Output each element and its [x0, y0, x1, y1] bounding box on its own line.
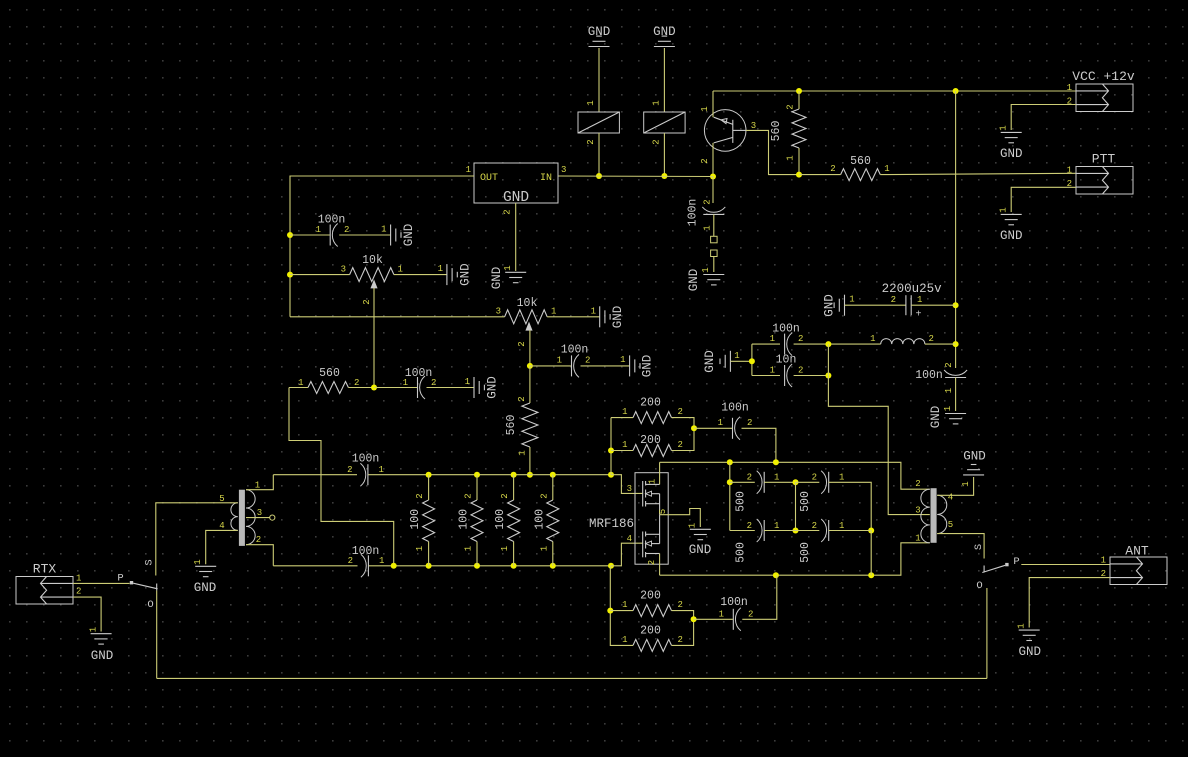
transformer T1 primary winding [231, 503, 238, 531]
pin 3 label T1 [257, 508, 262, 518]
svg-text:GND: GND [963, 450, 986, 464]
wire Q1 collector (pin 1) [712, 91, 714, 117]
svg-text:GND: GND [490, 267, 504, 290]
wire 200 top left tie [611, 417, 633, 419]
wire ground to 2200u [845, 304, 906, 306]
ground (pot2) [591, 306, 625, 329]
svg-text:200: 200 [640, 397, 661, 410]
junction 500 top-left [727, 479, 733, 485]
svg-text:1: 1 [651, 100, 661, 105]
wire 200 top left vertical [610, 418, 612, 475]
svg-text:1: 1 [500, 546, 510, 551]
svg-text:2: 2 [354, 378, 359, 388]
svg-text:560: 560 [319, 367, 340, 380]
junction 200 bottom right / 100n [691, 616, 697, 622]
wire T1 pin1 to gate3 bus [246, 475, 273, 490]
wire 560 top stub [798, 91, 800, 109]
svg-text:1: 1 [688, 523, 698, 528]
pin 1 label T1 [255, 481, 260, 491]
pin 4 label T2 [948, 493, 953, 503]
wire pot2 wiper down [529, 330, 531, 366]
wire bank 1 top stub [428, 475, 430, 500]
wire inductor to +12V [925, 343, 956, 345]
svg-text:2: 2 [678, 440, 683, 450]
svg-text:GND: GND [929, 406, 943, 429]
svg-text:2: 2 [362, 299, 372, 304]
wire 500 bottom row c [796, 530, 820, 532]
pin 1 label T2 [915, 534, 920, 544]
wire 500 bottom row b [764, 530, 795, 532]
svg-text:1: 1 [703, 225, 713, 230]
svg-text:+: + [915, 310, 921, 321]
svg-text:1: 1 [379, 556, 384, 566]
transformer T2 primary winding [921, 489, 930, 543]
svg-text:1: 1 [849, 295, 854, 305]
wire T2 pin5 to switch S [937, 534, 984, 559]
pin 5 label U1 [658, 509, 668, 514]
pin 3 label U2 [561, 165, 566, 175]
resistor 560 (bias horizontal) [298, 367, 359, 394]
pin 1 label U2 [466, 165, 471, 175]
svg-text:5: 5 [948, 520, 953, 530]
capacitor 500 (top right) [799, 471, 844, 512]
svg-text:1: 1 [700, 106, 710, 111]
svg-text:2: 2 [76, 587, 81, 597]
wire wiper junction down [529, 366, 531, 403]
svg-text:2: 2 [348, 556, 353, 566]
ground (pot2 wiper cap) [620, 355, 654, 378]
wire to 100n (filter) [752, 343, 780, 345]
svg-text:100: 100 [458, 509, 471, 530]
resistor 200 (bottom A) [622, 590, 683, 617]
transformer T1 secondary winding [246, 490, 255, 545]
pin 2 label RTX [76, 587, 81, 597]
capacitor 100n (row 387) [403, 367, 437, 399]
wire +12V top bus [713, 90, 1076, 92]
svg-text:1: 1 [551, 307, 556, 317]
svg-text:100n: 100n [352, 453, 380, 466]
wire ground to caps [730, 360, 752, 362]
wire ANT pin2 to ground [1029, 578, 1110, 628]
wire 2200u to +12V [911, 304, 955, 306]
junction 2200u [953, 302, 959, 308]
pin 4 label U1 [627, 534, 632, 544]
wire OUT net [290, 176, 474, 317]
svg-text:GND: GND [653, 25, 676, 39]
capacitor 100n (bottom coupling) [719, 596, 754, 631]
wire regulator IN bus [558, 175, 713, 178]
wire fuse F2 bottom [663, 133, 665, 176]
wire T2 pin4 to ground [937, 477, 973, 495]
svg-text:2: 2 [344, 225, 349, 235]
svg-text:100: 100 [533, 509, 546, 530]
potentiometer 10k (pot1) [341, 254, 403, 288]
svg-text:2: 2 [798, 334, 803, 344]
svg-text:3: 3 [341, 265, 346, 275]
svg-text:ANT: ANT [1125, 544, 1149, 559]
pin 2 label U2 [503, 209, 513, 214]
svg-text:2: 2 [747, 473, 752, 483]
wire bank 4 top stub [552, 475, 554, 500]
junction 560 bias / gate3 bus [527, 472, 533, 478]
wire caps mid vertical [827, 344, 829, 375]
svg-text:GND: GND [1000, 229, 1023, 243]
svg-text:1: 1 [1067, 166, 1072, 176]
svg-text:IN: IN [540, 173, 552, 184]
svg-text:1: 1 [193, 559, 203, 564]
wire caps left vertical [751, 344, 753, 375]
svg-text:1: 1 [774, 521, 779, 531]
junction OUT / 100n row [287, 232, 293, 238]
resistor 560 (bias vertical) [505, 396, 538, 455]
wire bottom bus [157, 677, 987, 679]
svg-text:3: 3 [627, 484, 632, 494]
wire gate4 bus left [273, 565, 357, 567]
switch SW1 (RTX side) [117, 559, 157, 611]
wire VCC pin2 to ground [1011, 105, 1076, 131]
svg-text:2: 2 [431, 378, 436, 388]
wire 560h to junction [348, 387, 374, 389]
svg-text:1: 1 [586, 100, 596, 105]
pin 2 label T1 [256, 535, 261, 545]
svg-text:2: 2 [415, 493, 425, 498]
wire regulator GND pin [515, 203, 517, 271]
svg-text:1: 1 [591, 307, 596, 317]
wire 100n to ground (row 387) [427, 387, 475, 389]
pin 1 label VCC [1067, 83, 1072, 93]
svg-text:2: 2 [347, 465, 352, 475]
resistor 200 (bottom B) [622, 625, 683, 652]
svg-text:3: 3 [257, 508, 262, 518]
pin 1 label RTX [76, 574, 81, 584]
svg-text:100n: 100n [772, 323, 800, 336]
svg-text:1: 1 [557, 356, 562, 366]
ground (100n/10n) [703, 350, 740, 373]
resistor 100 (bank 4) [533, 493, 559, 551]
wire 100n to ground (row1) [339, 234, 390, 236]
svg-text:1: 1 [622, 600, 627, 610]
ground (100n row1) [381, 224, 416, 247]
wire 560 bottom stub [798, 148, 800, 175]
svg-text:1: 1 [379, 465, 384, 475]
wire gate3 bus right [368, 474, 611, 476]
svg-text:1: 1 [961, 481, 971, 486]
svg-text:S: S [973, 544, 985, 550]
svg-text:S: S [144, 559, 156, 565]
svg-text:3: 3 [561, 165, 566, 175]
junction R bank 2 top [474, 472, 480, 478]
svg-text:2: 2 [539, 493, 549, 498]
svg-text:1: 1 [255, 481, 260, 491]
svg-text:1: 1 [943, 406, 953, 411]
wire 100n to junction (filter) [794, 343, 829, 345]
wire drain2 bus [660, 543, 930, 575]
connector ANT [1110, 544, 1167, 585]
wire jumper to ground [713, 257, 715, 273]
wire to 10k pot1 [290, 274, 350, 276]
wire U1 drain1 (pin 1) [659, 462, 661, 484]
capacitor 500 (bottom left) [735, 519, 780, 563]
transformer T2 core [931, 488, 937, 543]
svg-text:1: 1 [518, 450, 528, 455]
wire bank 2 top stub [476, 475, 478, 500]
junction ground / caps [749, 358, 755, 364]
svg-text:1: 1 [884, 164, 889, 174]
wire gate3 jog [611, 475, 643, 494]
ground (regulator) [490, 265, 526, 289]
svg-text:2: 2 [678, 600, 683, 610]
wire 10n to junction (filter) [794, 375, 829, 377]
wire cap to jumper [713, 214, 715, 236]
svg-text:1: 1 [298, 378, 303, 388]
junction 200 top left [608, 448, 614, 454]
junction OUT / 10k row [287, 272, 293, 278]
inductor L1 [870, 334, 934, 344]
capacitor 100n (top coupling) [718, 402, 753, 440]
svg-text:2: 2 [585, 356, 590, 366]
wire 500 block left vertical [729, 462, 731, 530]
capacitor 100n (row1) [316, 214, 350, 247]
wire 560 bias bottom [529, 447, 531, 475]
resistor 200 (top A) [622, 397, 683, 424]
svg-text:2: 2 [678, 635, 683, 645]
junction R bank 4 top [550, 472, 556, 478]
resistor 100 (bank 3) [494, 493, 519, 551]
wire pot1 wiper down [373, 288, 375, 388]
wire bypass cap to ground [955, 378, 957, 412]
wire switch O to bottom bus [156, 591, 158, 679]
wire 200 bottom A left stub [610, 610, 633, 612]
svg-text:O: O [976, 580, 982, 592]
junction 560 bottom / PTT net [796, 172, 802, 178]
svg-text:2: 2 [812, 473, 817, 483]
svg-text:1: 1 [917, 295, 922, 305]
switch SW2 (ANT side) [973, 544, 1020, 592]
svg-text:10k: 10k [362, 254, 383, 267]
pin 4 label T1 [219, 521, 224, 531]
wire PTT pin2 to ground [1011, 187, 1076, 212]
svg-text:GND: GND [402, 224, 416, 247]
svg-text:1: 1 [622, 635, 627, 645]
wire 500 mid vertical [795, 482, 797, 530]
pin 1 label Q1 [700, 106, 710, 111]
svg-text:GND: GND [459, 263, 473, 286]
pin 2 label pot1 [362, 299, 372, 304]
capacitor 100n (at Q1 emitter) [687, 199, 726, 231]
wire 100n top coupling left [694, 427, 732, 429]
svg-text:500: 500 [735, 542, 748, 563]
ground (below jumper) [687, 267, 724, 291]
capacitor 100n (gate4 bus) [348, 545, 385, 577]
svg-text:2: 2 [891, 295, 896, 305]
svg-text:1: 1 [622, 407, 627, 417]
svg-text:2: 2 [929, 334, 934, 344]
wire U1 drain2 (pin 2) [659, 554, 661, 576]
junction 500 bottom mid [793, 528, 799, 534]
wire 100n top coupling right [742, 428, 776, 462]
junction R bank 2 bottom [474, 563, 480, 569]
ground (T1 pin4) [193, 559, 216, 595]
ground (+12V bypass) [929, 406, 966, 429]
junction R bank 3 top [511, 472, 517, 478]
capacitor 10n (filter) [770, 354, 804, 388]
ground (VCC) [999, 125, 1023, 161]
ground (pot1) [438, 263, 473, 286]
svg-text:2: 2 [647, 560, 657, 565]
wire fuse F2 top [663, 48, 665, 112]
svg-text:2: 2 [747, 521, 752, 531]
connector RTX [16, 562, 73, 605]
pin 2 label pot2 [517, 341, 527, 346]
junction +12V bus / vertical [953, 88, 959, 94]
wire pot1 pin1 to ground [394, 274, 447, 276]
junction drain2 / 100n coupling [773, 572, 779, 578]
capacitor 500 (top left) [735, 471, 780, 512]
junction drain1 / 500 caps [727, 459, 733, 465]
svg-text:P: P [117, 573, 123, 585]
junction drain1 / 100n coupling [773, 459, 779, 465]
svg-text:100n: 100n [352, 545, 380, 558]
svg-text:100n: 100n [318, 214, 346, 227]
svg-text:1: 1 [839, 521, 844, 531]
svg-text:2: 2 [915, 479, 920, 489]
pin 2 label Q1 [700, 158, 710, 163]
svg-text:2: 2 [700, 158, 710, 163]
wire 200 top B left stub [611, 450, 633, 452]
transistor Q1 [704, 110, 746, 152]
svg-text:RTX: RTX [33, 562, 57, 577]
svg-text:1: 1 [648, 479, 658, 484]
svg-text:10k: 10k [517, 297, 538, 310]
svg-text:PTT: PTT [1092, 152, 1116, 167]
svg-text:2: 2 [517, 396, 527, 401]
svg-text:GND: GND [1019, 645, 1042, 659]
svg-text:2200u25v: 2200u25v [882, 282, 943, 296]
potentiometer 10k (pot2) [496, 297, 557, 330]
svg-text:1: 1 [770, 334, 775, 344]
svg-text:2: 2 [678, 407, 683, 417]
wire T1 pin3 open [246, 515, 275, 520]
svg-text:3: 3 [915, 506, 920, 516]
pin 5 label T1 [219, 494, 224, 504]
pin 1 label PTT [1067, 166, 1072, 176]
junction 560h net / gate4 bus [391, 563, 397, 569]
wire wiper junction to 100n [530, 365, 571, 367]
resistor 100 (bank 2) [458, 493, 484, 551]
svg-text:3: 3 [751, 121, 756, 131]
svg-text:1: 1 [76, 574, 81, 584]
svg-text:1: 1 [1067, 83, 1072, 93]
svg-text:GND: GND [703, 350, 717, 373]
junction 500 top mid [793, 479, 799, 485]
capacitor 100n (+12V bypass) [915, 362, 967, 393]
junction R bank 1 top [426, 472, 432, 478]
capacitor 100n (pot2 wiper) [557, 344, 591, 378]
svg-text:1: 1 [403, 378, 408, 388]
wire Q1 emitter (pin 2) [712, 143, 714, 177]
dual FET U1 MRF186 [589, 473, 668, 565]
svg-text:1: 1 [718, 418, 723, 428]
transformer T1 core [239, 490, 245, 546]
capacitor 2200u25v [882, 282, 943, 321]
pin 3 label T2 [915, 506, 920, 516]
svg-text:1: 1 [539, 546, 549, 551]
svg-text:GND: GND [194, 581, 217, 595]
resistor 100 (bank 1) [409, 493, 435, 551]
svg-text:1: 1 [839, 473, 844, 483]
svg-text:2: 2 [651, 139, 661, 144]
wire 500 bottom row d [829, 530, 872, 532]
ground (top, over fuse F1) [588, 25, 611, 47]
wire 500 top row d [829, 482, 872, 530]
svg-text:2: 2 [830, 164, 835, 174]
svg-text:GND: GND [823, 294, 837, 317]
svg-text:1: 1 [438, 264, 443, 274]
wire Q1 emitter to C bypass [712, 177, 714, 204]
pin 1 label U1 [648, 479, 658, 484]
resistor 560 (R vertical at Q1) [770, 104, 806, 160]
svg-text:1: 1 [770, 366, 775, 376]
svg-text:2: 2 [747, 418, 752, 428]
svg-text:2: 2 [500, 493, 510, 498]
svg-text:560: 560 [850, 155, 871, 168]
wire U1 source (pin 5) to ground [660, 509, 701, 528]
svg-text:500: 500 [735, 491, 748, 512]
wire T1 pin2 to gate4 bus [246, 545, 273, 566]
svg-text:GND: GND [641, 355, 655, 378]
wire switch O down [986, 588, 988, 678]
svg-text:2: 2 [944, 362, 954, 367]
svg-text:1: 1 [620, 355, 625, 365]
junction pot2 wiper / 100n / 560 [527, 363, 533, 369]
svg-text:100: 100 [409, 509, 422, 530]
svg-text:4: 4 [627, 534, 632, 544]
svg-text:1: 1 [415, 546, 425, 551]
wire +12V vertical [955, 91, 957, 368]
svg-text:2: 2 [256, 535, 261, 545]
ground (row 387) [465, 376, 500, 399]
svg-text:560: 560 [770, 121, 783, 142]
wire bank 3 bottom stub [513, 542, 515, 566]
svg-text:2: 2 [812, 521, 817, 531]
fuse F1 [578, 112, 619, 133]
svg-text:GND: GND [689, 543, 712, 557]
svg-text:200: 200 [640, 590, 661, 603]
junction 500 right [868, 528, 874, 534]
junction 200 bottom left [607, 608, 613, 614]
svg-text:MRF186: MRF186 [589, 517, 634, 531]
svg-text:4: 4 [948, 493, 953, 503]
wire to 100n (row1) [290, 234, 330, 236]
connector PTT [1076, 152, 1133, 195]
svg-text:VCC +12v: VCC +12v [1072, 69, 1135, 84]
svg-text:2: 2 [786, 104, 796, 109]
svg-text:1: 1 [701, 267, 711, 272]
wire fuse F1 bottom [598, 133, 600, 176]
wire 560h pin1 stub [289, 387, 308, 389]
svg-text:560: 560 [505, 415, 518, 436]
svg-text:2: 2 [748, 610, 753, 620]
pin 2 label T2 [915, 479, 920, 489]
svg-text:2: 2 [517, 341, 527, 346]
wire RTX pin2 to ground [73, 597, 101, 631]
wire gate4 jog [611, 543, 643, 566]
fuse F2 [644, 112, 685, 133]
svg-text:2: 2 [703, 199, 713, 204]
svg-text:1: 1 [465, 377, 470, 387]
junction drain2 / 500 caps [868, 572, 874, 578]
svg-text:1: 1 [466, 165, 471, 175]
